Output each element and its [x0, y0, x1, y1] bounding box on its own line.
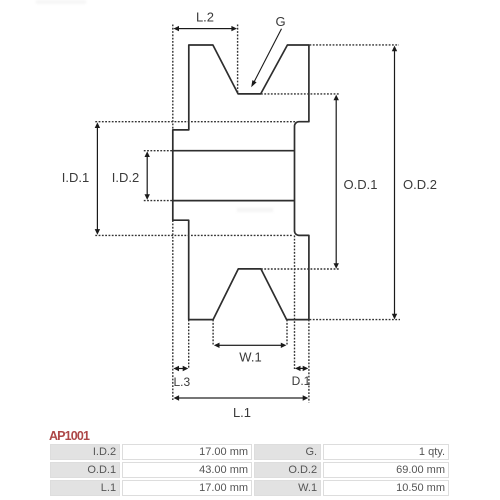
svg-text:G: G — [275, 14, 285, 29]
svg-text:I.D.2: I.D.2 — [112, 170, 139, 185]
svg-text:O.D.1: O.D.1 — [344, 177, 378, 192]
svg-text:L.1: L.1 — [233, 405, 251, 420]
svg-text:W.1: W.1 — [239, 349, 261, 364]
svg-text:L.3: L.3 — [173, 375, 190, 389]
svg-text:L.2: L.2 — [196, 10, 214, 25]
svg-text:O.D.2: O.D.2 — [403, 177, 437, 192]
svg-text:I.D.1: I.D.1 — [62, 170, 89, 185]
svg-text:D.1: D.1 — [292, 374, 311, 388]
